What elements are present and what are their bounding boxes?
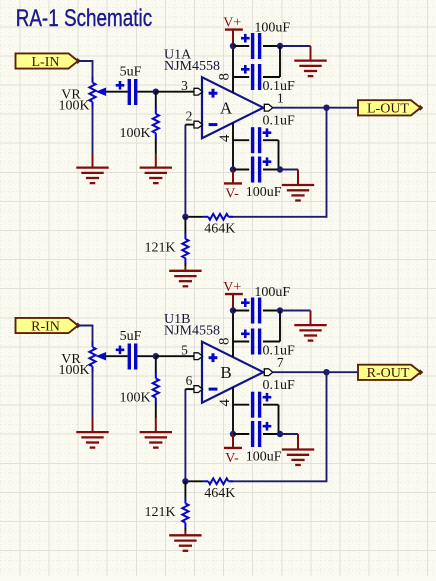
svg-text:100uF: 100uF <box>254 20 290 35</box>
svg-text:6: 6 <box>186 373 193 388</box>
junction node output (L) <box>323 105 329 111</box>
junction node V+ (L) <box>230 43 236 49</box>
ground under 121K (L) <box>169 266 201 286</box>
svg-text:100uF: 100uF <box>246 185 282 200</box>
wire V+ caps to ground (R) <box>280 310 311 312</box>
polarity + of 5uF (R) <box>116 348 125 351</box>
junction node V- left (R) <box>230 431 236 437</box>
svg-text:A: A <box>220 99 233 118</box>
wire 5uF to node <box>138 355 157 357</box>
wire wiper to 5uF cap <box>106 355 128 357</box>
ground of V- rail (L) <box>282 170 314 201</box>
svg-text:4: 4 <box>217 398 233 406</box>
junction node V- right (R) <box>277 431 283 437</box>
svg-text:V+: V+ <box>223 280 241 295</box>
ground under 100K (L) <box>140 154 172 184</box>
svg-text:100K: 100K <box>119 390 150 405</box>
svg-text:R-IN: R-IN <box>31 319 60 334</box>
svg-text:100K: 100K <box>58 363 89 378</box>
junction node feedback (L) <box>182 214 188 220</box>
wire pin 1 to L-OUT <box>273 107 358 109</box>
svg-text:5uF: 5uF <box>120 329 142 344</box>
svg-text:B: B <box>220 363 231 382</box>
svg-text:3: 3 <box>181 78 188 93</box>
capacitor 100uF on V- (L) <box>233 157 280 183</box>
junction node output (R) <box>323 369 329 375</box>
capacitor 100uF on V- (R) <box>233 421 280 447</box>
ground of V+ rail (R) <box>294 311 326 341</box>
power V+ symbol (R) <box>223 280 243 308</box>
ground under 121K (R) <box>169 531 201 551</box>
svg-text:5: 5 <box>181 343 188 358</box>
svg-text:0.1uF: 0.1uF <box>262 378 295 393</box>
svg-text:0.1uF: 0.1uF <box>262 79 295 94</box>
svg-text:100K: 100K <box>119 126 150 141</box>
svg-text:121K: 121K <box>144 241 175 256</box>
resistor 464K feedback (L) <box>185 214 232 220</box>
junction node input (L) <box>153 89 159 95</box>
op-amp plus input mark (R) <box>209 356 218 359</box>
svg-text:RA-1 Schematic: RA-1 Schematic <box>16 5 153 32</box>
wire node to pin 5 <box>156 355 194 357</box>
capacitor 100uF on V+ (R) <box>233 298 280 324</box>
op-amp U1A triangle <box>202 77 263 138</box>
polarity + of V+ 0.1uF (L) <box>241 68 250 71</box>
resistor 100K to ground (L) <box>153 92 159 154</box>
pin 4 wire (R) <box>232 387 234 434</box>
junction node V+ (R) <box>230 307 236 313</box>
svg-text:V-: V- <box>225 186 239 201</box>
resistor 121K to ground (R) <box>182 481 188 531</box>
power V- symbol (L) <box>224 170 242 202</box>
pin 2 arrow <box>194 121 203 128</box>
polarity + of V- 100uF (R) <box>263 425 272 428</box>
svg-text:NJM4558: NJM4558 <box>164 324 220 339</box>
polarity + of V- 0.1uF (R) <box>263 396 272 399</box>
capacitor 0.1uF on V+ (R) <box>233 311 280 355</box>
capacitor 0.1uF on V- (R) <box>233 392 279 434</box>
pin 7 arrow <box>264 369 273 376</box>
capacitor 0.1uF on V- (L) <box>233 127 279 169</box>
wire wiper to 5uF cap <box>106 91 128 93</box>
svg-text:NJM4558: NJM4558 <box>164 59 220 74</box>
resistor 100K to ground (R) <box>153 356 159 418</box>
wire L-IN to potentiometer <box>78 61 92 78</box>
junction node V- left (L) <box>230 166 236 172</box>
polarity + of V+ 100uF (L) <box>241 37 250 40</box>
capacitor 5uF (R) <box>129 344 135 370</box>
port L-OUT <box>358 100 421 115</box>
polarity + of V+ 100uF (R) <box>241 301 250 304</box>
svg-text:4: 4 <box>217 134 233 142</box>
wire feedback from output (L) <box>231 108 327 217</box>
polarity + of V+ 0.1uF (R) <box>241 332 250 335</box>
capacitor 5uF (L) <box>129 79 135 105</box>
svg-text:464K: 464K <box>204 486 235 501</box>
svg-text:2: 2 <box>186 108 193 123</box>
wire V- caps to ground (L) <box>280 169 298 171</box>
port L-IN <box>16 53 79 68</box>
svg-text:V+: V+ <box>223 16 241 31</box>
pin 6 arrow <box>194 386 203 393</box>
ground of V+ rail (L) <box>294 46 326 76</box>
svg-text:L-OUT: L-OUT <box>367 102 409 117</box>
svg-text:V-: V- <box>225 451 239 466</box>
junction node V+ cap right (R) <box>277 307 283 313</box>
power V- symbol (R) <box>224 434 242 466</box>
ground of V- rail (R) <box>282 434 314 465</box>
svg-text:0.1uF: 0.1uF <box>262 343 295 358</box>
svg-text:8: 8 <box>216 73 232 81</box>
svg-text:R-OUT: R-OUT <box>367 366 410 381</box>
potentiometer VR 100K (R) <box>89 341 105 372</box>
op-amp U1B triangle <box>202 342 263 403</box>
ground under potentiometer (R) <box>76 418 108 448</box>
svg-text:8: 8 <box>216 338 232 346</box>
wire V- caps to ground (R) <box>280 433 298 435</box>
svg-text:464K: 464K <box>204 222 235 237</box>
wire feedback node to pin 6 <box>184 389 186 481</box>
svg-text:100uF: 100uF <box>246 450 282 465</box>
capacitor 0.1uF on V+ (L) <box>233 46 280 90</box>
port R-OUT <box>358 365 421 380</box>
op-amp minus input mark (L) <box>209 123 218 126</box>
port R-IN <box>16 318 79 333</box>
polarity + of 5uF (L) <box>116 84 125 87</box>
wire node to pin 3 <box>156 91 194 93</box>
op-amp plus input mark (L) <box>209 92 218 95</box>
pin 4 wire (L) <box>232 123 234 170</box>
wire feedback node to pin 2 <box>184 125 186 217</box>
svg-text:5uF: 5uF <box>120 65 142 80</box>
junction node feedback (R) <box>182 478 188 484</box>
resistor 121K to ground (L) <box>182 217 188 267</box>
pin 3 arrow <box>194 88 203 95</box>
wire R-IN to potentiometer <box>78 326 92 343</box>
pin 5 arrow <box>194 353 203 360</box>
wire V+ caps to ground (L) <box>280 45 311 47</box>
polarity + of V- 0.1uF (L) <box>263 131 272 134</box>
wire 5uF to node <box>138 91 157 93</box>
potentiometer VR 100K (L) <box>89 77 105 108</box>
pin 1 arrow <box>264 104 273 111</box>
wire potentiometer to ground (R) <box>92 372 94 418</box>
wire pin 7 to R-OUT <box>273 371 358 373</box>
pin 8 wire (R) <box>232 313 234 358</box>
ground under potentiometer (L) <box>76 154 108 184</box>
capacitor 100uF on V+ (L) <box>233 33 280 59</box>
polarity + of V- 100uF (L) <box>263 160 272 163</box>
svg-text:100K: 100K <box>58 99 89 114</box>
ground under 100K (R) <box>140 418 172 448</box>
junction node V- right (L) <box>277 166 283 172</box>
svg-text:0.1uF: 0.1uF <box>262 114 295 129</box>
wire potentiometer to ground (L) <box>92 107 94 153</box>
op-amp minus input mark (R) <box>209 388 218 391</box>
wire feedback from output (R) <box>231 372 327 481</box>
pin 8 wire (L) <box>232 48 234 93</box>
power V+ symbol (L) <box>223 16 243 44</box>
svg-text:L-IN: L-IN <box>32 55 60 70</box>
svg-text:121K: 121K <box>144 505 175 520</box>
svg-text:100uF: 100uF <box>254 285 290 300</box>
junction node V+ cap right (L) <box>277 43 283 49</box>
junction node input (R) <box>153 353 159 359</box>
resistor 464K feedback (R) <box>185 478 232 484</box>
